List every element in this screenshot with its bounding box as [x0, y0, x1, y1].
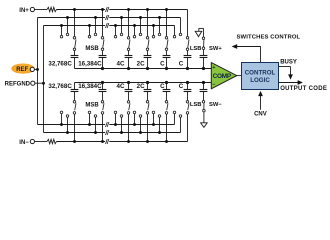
svg-text:4C: 4C	[117, 61, 125, 68]
svg-text:32,768C: 32,768C	[48, 83, 72, 90]
svg-text:32,768C: 32,768C	[48, 61, 72, 68]
svg-text:LSB: LSB	[190, 46, 202, 52]
svg-text:CNV: CNV	[254, 111, 267, 117]
svg-text:C: C	[179, 83, 184, 90]
svg-text:C: C	[160, 83, 165, 90]
svg-text:+: +	[212, 65, 215, 71]
svg-text:2C: 2C	[137, 83, 145, 90]
svg-text:−: −	[212, 82, 215, 88]
svg-text:CONTROL: CONTROL	[245, 69, 276, 76]
svg-text:LSB: LSB	[190, 102, 202, 108]
svg-text:REF: REF	[16, 67, 28, 73]
svg-text:IN−: IN−	[19, 140, 29, 146]
svg-text:SW−: SW−	[209, 102, 222, 108]
svg-text:LOGIC: LOGIC	[250, 77, 270, 84]
svg-text:4C: 4C	[117, 83, 125, 90]
svg-text:C: C	[179, 61, 184, 68]
svg-text:16,384C: 16,384C	[78, 83, 102, 90]
svg-text:OUTPUT CODE: OUTPUT CODE	[280, 86, 327, 92]
svg-text:COMP: COMP	[213, 73, 232, 80]
svg-text:BUSY: BUSY	[280, 60, 297, 66]
svg-text:SWITCHES CONTROL: SWITCHES CONTROL	[237, 35, 301, 41]
svg-text:MSB: MSB	[85, 46, 99, 52]
svg-text:SW+: SW+	[209, 46, 222, 52]
svg-text:MSB: MSB	[85, 102, 99, 108]
svg-text:IN+: IN+	[19, 8, 29, 14]
svg-text:REFGND: REFGND	[5, 81, 31, 87]
svg-text:C: C	[160, 61, 165, 68]
svg-text:16,384C: 16,384C	[78, 61, 102, 68]
svg-text:2C: 2C	[137, 61, 145, 68]
